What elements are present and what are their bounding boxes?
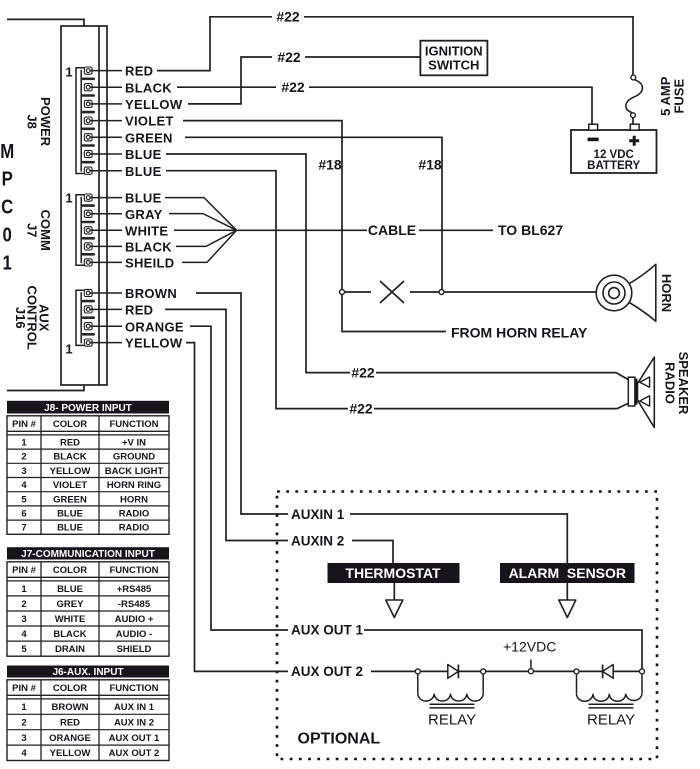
wire BLACK #22 to battery minus bbox=[177, 86, 276, 88]
svg-text:COLOR: COLOR bbox=[53, 419, 87, 430]
svg-text:1: 1 bbox=[65, 342, 72, 357]
connector J16 bbox=[76, 289, 122, 346]
svg-text:1: 1 bbox=[3, 251, 12, 274]
svg-text:RELAY: RELAY bbox=[587, 712, 635, 729]
svg-text:#18: #18 bbox=[318, 157, 342, 173]
svg-text:CABLE: CABLE bbox=[368, 222, 416, 238]
diode D2 bbox=[603, 665, 614, 679]
svg-text:2: 2 bbox=[21, 599, 26, 610]
J8 pin wire labels bbox=[125, 64, 183, 179]
svg-text:3: 3 bbox=[21, 733, 26, 744]
wire cable run bbox=[237, 229, 367, 231]
svg-text:ORANGE: ORANGE bbox=[49, 733, 91, 744]
svg-text:GREEN: GREEN bbox=[53, 494, 87, 505]
svg-text:AUX OUT 1: AUX OUT 1 bbox=[291, 623, 364, 638]
svg-text:+RS485: +RS485 bbox=[117, 584, 152, 595]
connector J7 bbox=[76, 194, 122, 266]
wire AUXIN1 to alarm sensor bbox=[350, 514, 567, 563]
svg-text:YELLOW: YELLOW bbox=[50, 748, 91, 759]
svg-text:P: P bbox=[2, 167, 13, 190]
svg-text:AUXIN 2: AUXIN 2 bbox=[291, 534, 344, 549]
battery BT1 12VDC bbox=[571, 124, 657, 173]
svg-text:RADIO: RADIO bbox=[662, 362, 677, 404]
svg-text:BACK LIGHT: BACK LIGHT bbox=[105, 466, 164, 477]
svg-text:#18: #18 bbox=[418, 157, 442, 173]
svg-text:GREY: GREY bbox=[57, 599, 85, 610]
wire BROWN down to AUXIN 1 bbox=[196, 293, 288, 514]
svg-text:1: 1 bbox=[21, 584, 27, 595]
wire AUX OUT 1 bbox=[364, 630, 642, 669]
wire AUX OUT 2 rail bbox=[371, 670, 640, 672]
svg-text:C: C bbox=[1, 195, 14, 218]
thermostat arrow bbox=[386, 583, 403, 618]
diode D1 bbox=[448, 665, 459, 679]
horn LS1 bbox=[596, 264, 656, 321]
svg-text:WHITE: WHITE bbox=[55, 614, 86, 625]
node A4 bbox=[640, 669, 645, 674]
J7 pin wire labels bbox=[125, 191, 174, 271]
svg-text:ORANGE: ORANGE bbox=[125, 319, 184, 334]
svg-text:#22: #22 bbox=[277, 49, 301, 65]
svg-text:FUNCTION: FUNCTION bbox=[109, 683, 158, 694]
svg-text:RED: RED bbox=[125, 64, 153, 79]
svg-text:M: M bbox=[0, 139, 14, 162]
MPC01 enclosure bbox=[61, 26, 107, 385]
label 5 AMP FUSE bbox=[658, 76, 687, 116]
svg-text:1: 1 bbox=[21, 438, 27, 449]
alarm arrow bbox=[559, 583, 576, 618]
svg-text:BROWN: BROWN bbox=[125, 286, 177, 301]
svg-text:BLUE: BLUE bbox=[57, 584, 83, 595]
svg-text:1: 1 bbox=[65, 191, 72, 206]
svg-text:RADIO: RADIO bbox=[119, 523, 150, 534]
svg-text:BLUE: BLUE bbox=[57, 509, 83, 520]
svg-text:AUX OUT 2: AUX OUT 2 bbox=[109, 748, 160, 759]
svg-text:BLACK: BLACK bbox=[125, 80, 172, 95]
svg-text:+12VDC: +12VDC bbox=[503, 639, 556, 655]
svg-text:2: 2 bbox=[21, 717, 26, 728]
node A2 bbox=[481, 669, 486, 674]
svg-text:SHEILD: SHEILD bbox=[125, 256, 174, 271]
table J6 aux input bbox=[7, 666, 169, 761]
svg-text:BLACK: BLACK bbox=[125, 240, 172, 255]
svg-text:BLUE: BLUE bbox=[125, 147, 162, 162]
svg-text:AUDIO +: AUDIO + bbox=[115, 614, 154, 625]
svg-text:YELLOW: YELLOW bbox=[50, 466, 91, 477]
wire chassis bottom bbox=[7, 385, 84, 391]
svg-text:6: 6 bbox=[21, 509, 26, 520]
svg-text:FUNCTION: FUNCTION bbox=[109, 419, 158, 430]
radio speaker LS2 bbox=[628, 357, 654, 427]
svg-text:+V IN: +V IN bbox=[122, 438, 146, 449]
label AUX CONTROL J16 bbox=[13, 286, 52, 350]
svg-text:-RS485: -RS485 bbox=[118, 599, 151, 610]
svg-text:#22: #22 bbox=[281, 79, 305, 95]
svg-text:FUNCTION: FUNCTION bbox=[109, 565, 158, 576]
svg-text:FROM HORN RELAY: FROM HORN RELAY bbox=[451, 325, 588, 341]
wire RED down to AUXIN 2 bbox=[165, 309, 288, 540]
wire AUXIN2 to thermostat bbox=[352, 541, 393, 564]
svg-text:BLACK: BLACK bbox=[53, 452, 86, 463]
svg-text:GRAY: GRAY bbox=[125, 207, 163, 222]
svg-text:J16: J16 bbox=[13, 307, 28, 329]
label POWER J8 bbox=[24, 97, 53, 147]
svg-text:GREEN: GREEN bbox=[125, 130, 173, 145]
svg-text:AUXIN 1: AUXIN 1 bbox=[291, 507, 345, 522]
svg-text:4: 4 bbox=[21, 748, 27, 759]
svg-text:ALARM SENSOR: ALARM SENSOR bbox=[509, 565, 626, 581]
optional dotted border bbox=[277, 492, 657, 760]
svg-text:HORN: HORN bbox=[120, 494, 148, 505]
wire from horn relay bbox=[342, 295, 446, 332]
svg-text:HORN: HORN bbox=[659, 274, 674, 312]
table J8 power input bbox=[7, 401, 169, 535]
svg-text:4: 4 bbox=[21, 629, 27, 640]
svg-text:FUSE: FUSE bbox=[672, 79, 687, 114]
svg-text:#22: #22 bbox=[276, 9, 300, 25]
svg-text:AUX IN 2: AUX IN 2 bbox=[114, 717, 154, 728]
wire BLUE6 to radio speaker top bbox=[166, 154, 350, 373]
svg-text:BLACK: BLACK bbox=[53, 629, 86, 640]
svg-text:2: 2 bbox=[21, 452, 26, 463]
COMM cable fan bbox=[165, 198, 237, 263]
svg-text:PIN #: PIN # bbox=[12, 565, 36, 576]
svg-text:5: 5 bbox=[21, 494, 27, 505]
wire GREEN #18 down bbox=[185, 137, 442, 290]
table J7 communication input bbox=[7, 547, 169, 656]
svg-text:YELLOW: YELLOW bbox=[125, 97, 183, 112]
svg-text:COLOR: COLOR bbox=[53, 683, 87, 694]
alarm sensor box bbox=[500, 563, 635, 583]
svg-text:BATTERY: BATTERY bbox=[587, 160, 640, 172]
svg-text:BLUE: BLUE bbox=[57, 523, 83, 534]
svg-text:J6-AUX. INPUT: J6-AUX. INPUT bbox=[52, 667, 123, 678]
svg-text:AUX OUT 2: AUX OUT 2 bbox=[291, 664, 363, 679]
svg-text:OPTIONAL: OPTIONAL bbox=[298, 731, 381, 748]
label MPC01 bbox=[0, 139, 14, 273]
svg-text:RELAY: RELAY bbox=[428, 712, 476, 729]
svg-text:4: 4 bbox=[21, 480, 27, 491]
svg-text:3: 3 bbox=[21, 614, 26, 625]
svg-text:VIOLET: VIOLET bbox=[53, 480, 88, 491]
svg-text:SHIELD: SHIELD bbox=[117, 644, 152, 655]
svg-text:BLUE: BLUE bbox=[125, 164, 162, 179]
wire ORANGE down to AUX OUT 1 bbox=[190, 326, 288, 630]
svg-text:5: 5 bbox=[21, 644, 27, 655]
wire YELLOW down to AUX OUT 2 bbox=[186, 343, 288, 672]
relay K1 coil bbox=[418, 674, 483, 729]
wire cable to BL627 bbox=[419, 229, 493, 231]
label COMM J7 bbox=[24, 210, 53, 251]
svg-text:RED: RED bbox=[125, 303, 153, 318]
svg-text:RED: RED bbox=[60, 717, 80, 728]
ignition switch U2 bbox=[420, 41, 487, 76]
wire YELLOW #22 to ignition switch bbox=[188, 57, 272, 104]
svg-text:WHITE: WHITE bbox=[125, 224, 168, 239]
svg-text:SWITCH: SWITCH bbox=[428, 57, 479, 72]
label HORN bbox=[659, 274, 674, 312]
svg-text:J7-COMMUNICATION INPUT: J7-COMMUNICATION INPUT bbox=[21, 549, 155, 560]
svg-text:AUDIO -: AUDIO - bbox=[116, 629, 152, 640]
svg-text:7: 7 bbox=[21, 523, 26, 534]
svg-text:COLOR: COLOR bbox=[53, 565, 87, 576]
node A3 bbox=[574, 669, 579, 674]
svg-text:YELLOW: YELLOW bbox=[125, 336, 183, 351]
relay K2 coil bbox=[577, 674, 643, 729]
wire BLUE7 to radio speaker bottom bbox=[166, 171, 348, 409]
svg-text:3: 3 bbox=[21, 466, 26, 477]
svg-text:AUX OUT 1: AUX OUT 1 bbox=[109, 733, 160, 744]
svg-text:VIOLET: VIOLET bbox=[125, 114, 174, 129]
connector J8 bbox=[76, 67, 122, 174]
node A1 bbox=[415, 669, 420, 674]
svg-text:PIN #: PIN # bbox=[12, 683, 36, 694]
svg-text:J7: J7 bbox=[24, 223, 39, 237]
svg-text:THERMOSTAT: THERMOSTAT bbox=[345, 565, 441, 581]
svg-text:RADIO: RADIO bbox=[119, 509, 150, 520]
node +12VDC tap bbox=[528, 660, 533, 674]
thermostat box bbox=[328, 563, 460, 583]
svg-text:BLUE: BLUE bbox=[125, 191, 162, 206]
svg-text:#22: #22 bbox=[351, 364, 375, 380]
J16 pin wire labels bbox=[125, 286, 184, 351]
svg-text:BROWN: BROWN bbox=[52, 702, 89, 713]
wire RED #22 to fuse bbox=[157, 17, 272, 71]
svg-text:J8- POWER INPUT: J8- POWER INPUT bbox=[44, 403, 132, 414]
wire VIOLET #18 down bbox=[183, 121, 342, 291]
svg-text:IGNITION: IGNITION bbox=[425, 43, 483, 58]
svg-text:1: 1 bbox=[65, 65, 72, 80]
label RADIO SPEAKER bbox=[662, 352, 691, 415]
wire chassis top bbox=[7, 19, 84, 26]
svg-text:HORN RING: HORN RING bbox=[107, 480, 161, 491]
svg-text:DRAIN: DRAIN bbox=[55, 644, 85, 655]
svg-text:AUX IN 1: AUX IN 1 bbox=[114, 702, 155, 713]
svg-text:RED: RED bbox=[60, 438, 80, 449]
svg-text:J8: J8 bbox=[24, 114, 39, 128]
svg-text:1: 1 bbox=[21, 702, 27, 713]
fuse F1 5 AMP bbox=[626, 75, 643, 125]
horn feed wire with X bbox=[340, 281, 597, 303]
svg-text:0: 0 bbox=[3, 223, 12, 246]
svg-text:#22: #22 bbox=[349, 400, 373, 416]
svg-text:TO BL627: TO BL627 bbox=[498, 222, 563, 238]
svg-text:PIN #: PIN # bbox=[12, 419, 36, 430]
svg-text:GROUND: GROUND bbox=[113, 452, 155, 463]
